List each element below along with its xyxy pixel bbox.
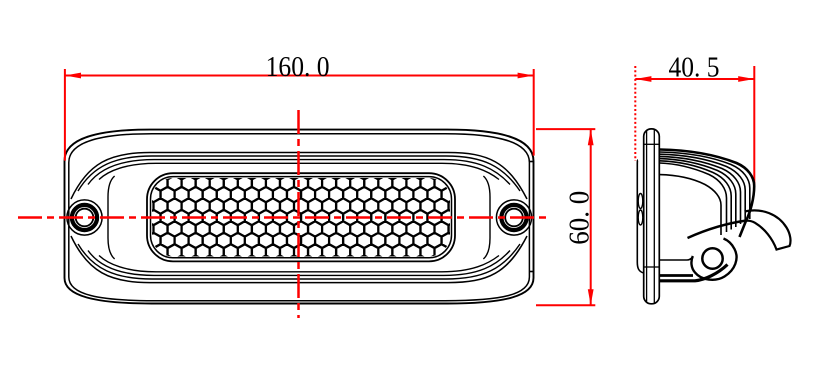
flange bar: [644, 129, 660, 304]
bracket hole: [702, 248, 722, 268]
dim 160.0 line: [65, 75, 534, 77]
left ear boss arc: [67, 200, 102, 235]
svg-text:60. 0: 60. 0: [565, 191, 596, 245]
honeycomb mesh: [132, 164, 469, 271]
dim 40.5 arrow left: [635, 76, 651, 82]
body bottom band upper: [660, 274, 694, 277]
bracket lobe: [691, 239, 736, 280]
body fin 3: [660, 156, 741, 224]
bezel step contour 4 bottom: [99, 256, 499, 272]
bezel step contour 3 bottom: [88, 251, 510, 276]
body fin 6: [660, 163, 727, 232]
flange bar face line 2: [653, 129, 655, 303]
bezel step contour 2 bottom: [78, 244, 520, 279]
body bottom shell edge: [660, 257, 694, 261]
lens inner rounded rect: [151, 177, 452, 258]
bezel step contour 1 bottom: [71, 236, 527, 283]
body fin 5: [660, 161, 732, 230]
bezel step contour 4 top: [99, 163, 499, 179]
flange plate slot upper: [638, 194, 643, 209]
outer body outline inner echo: [69, 134, 530, 301]
body outer outline top: [660, 150, 755, 238]
lens outer rounded rect: [147, 173, 455, 261]
dim 160.0 extension left: [64, 69, 66, 161]
dim 160.0 extension right: [533, 69, 535, 156]
outer body outline: [65, 130, 534, 304]
bracket arm upper edge: [688, 221, 747, 239]
flange thin plate: [637, 160, 643, 273]
svg-text:160. 0: 160. 0: [266, 52, 330, 83]
dim 60.0 arrow top: [588, 129, 594, 145]
body fin 1: [660, 152, 750, 219]
ear pocket line right: [483, 176, 490, 259]
bezel step contour 1 top: [71, 153, 527, 200]
left ear hole: [76, 209, 94, 227]
dim 40.5 extension right: [753, 66, 755, 185]
horizontal centerline: [18, 216, 551, 219]
dim 40.5 extension left (dotted): [634, 66, 636, 161]
dim 60.0 line: [590, 129, 592, 305]
dim 40.5 line: [635, 78, 754, 80]
body fin 4: [660, 159, 736, 227]
wire: [745, 210, 791, 249]
right ear ring: [501, 205, 526, 230]
body bottom band lower: [660, 265, 728, 281]
right ear hole: [505, 209, 523, 227]
bezel step contour 2 top: [78, 156, 520, 191]
dim 160.0 arrow right: [518, 73, 534, 79]
right edge notch lower: [529, 271, 533, 273]
ear pocket line left: [108, 176, 115, 259]
flange tick upper: [644, 143, 660, 145]
flange bar face line 1: [646, 131, 648, 302]
svg-text:40. 5: 40. 5: [669, 53, 720, 84]
dim 40.5 arrow right: [738, 76, 754, 82]
right ear boss arc: [496, 200, 531, 235]
bezel step contour 3 top: [88, 160, 510, 185]
flange tick lower: [644, 266, 660, 268]
left ear ring: [72, 205, 97, 230]
flange plate slot lower: [638, 210, 643, 225]
dim 60.0 extension top: [536, 128, 595, 130]
dim 60.0 extension bottom: [536, 304, 595, 306]
body lens contour: [660, 175, 722, 235]
vertical centerline: [297, 110, 300, 318]
body fin 2: [660, 154, 746, 221]
right edge notch upper: [529, 161, 533, 163]
dim 60.0 arrow bottom: [588, 289, 594, 305]
dim 160.0 arrow left: [65, 73, 81, 79]
